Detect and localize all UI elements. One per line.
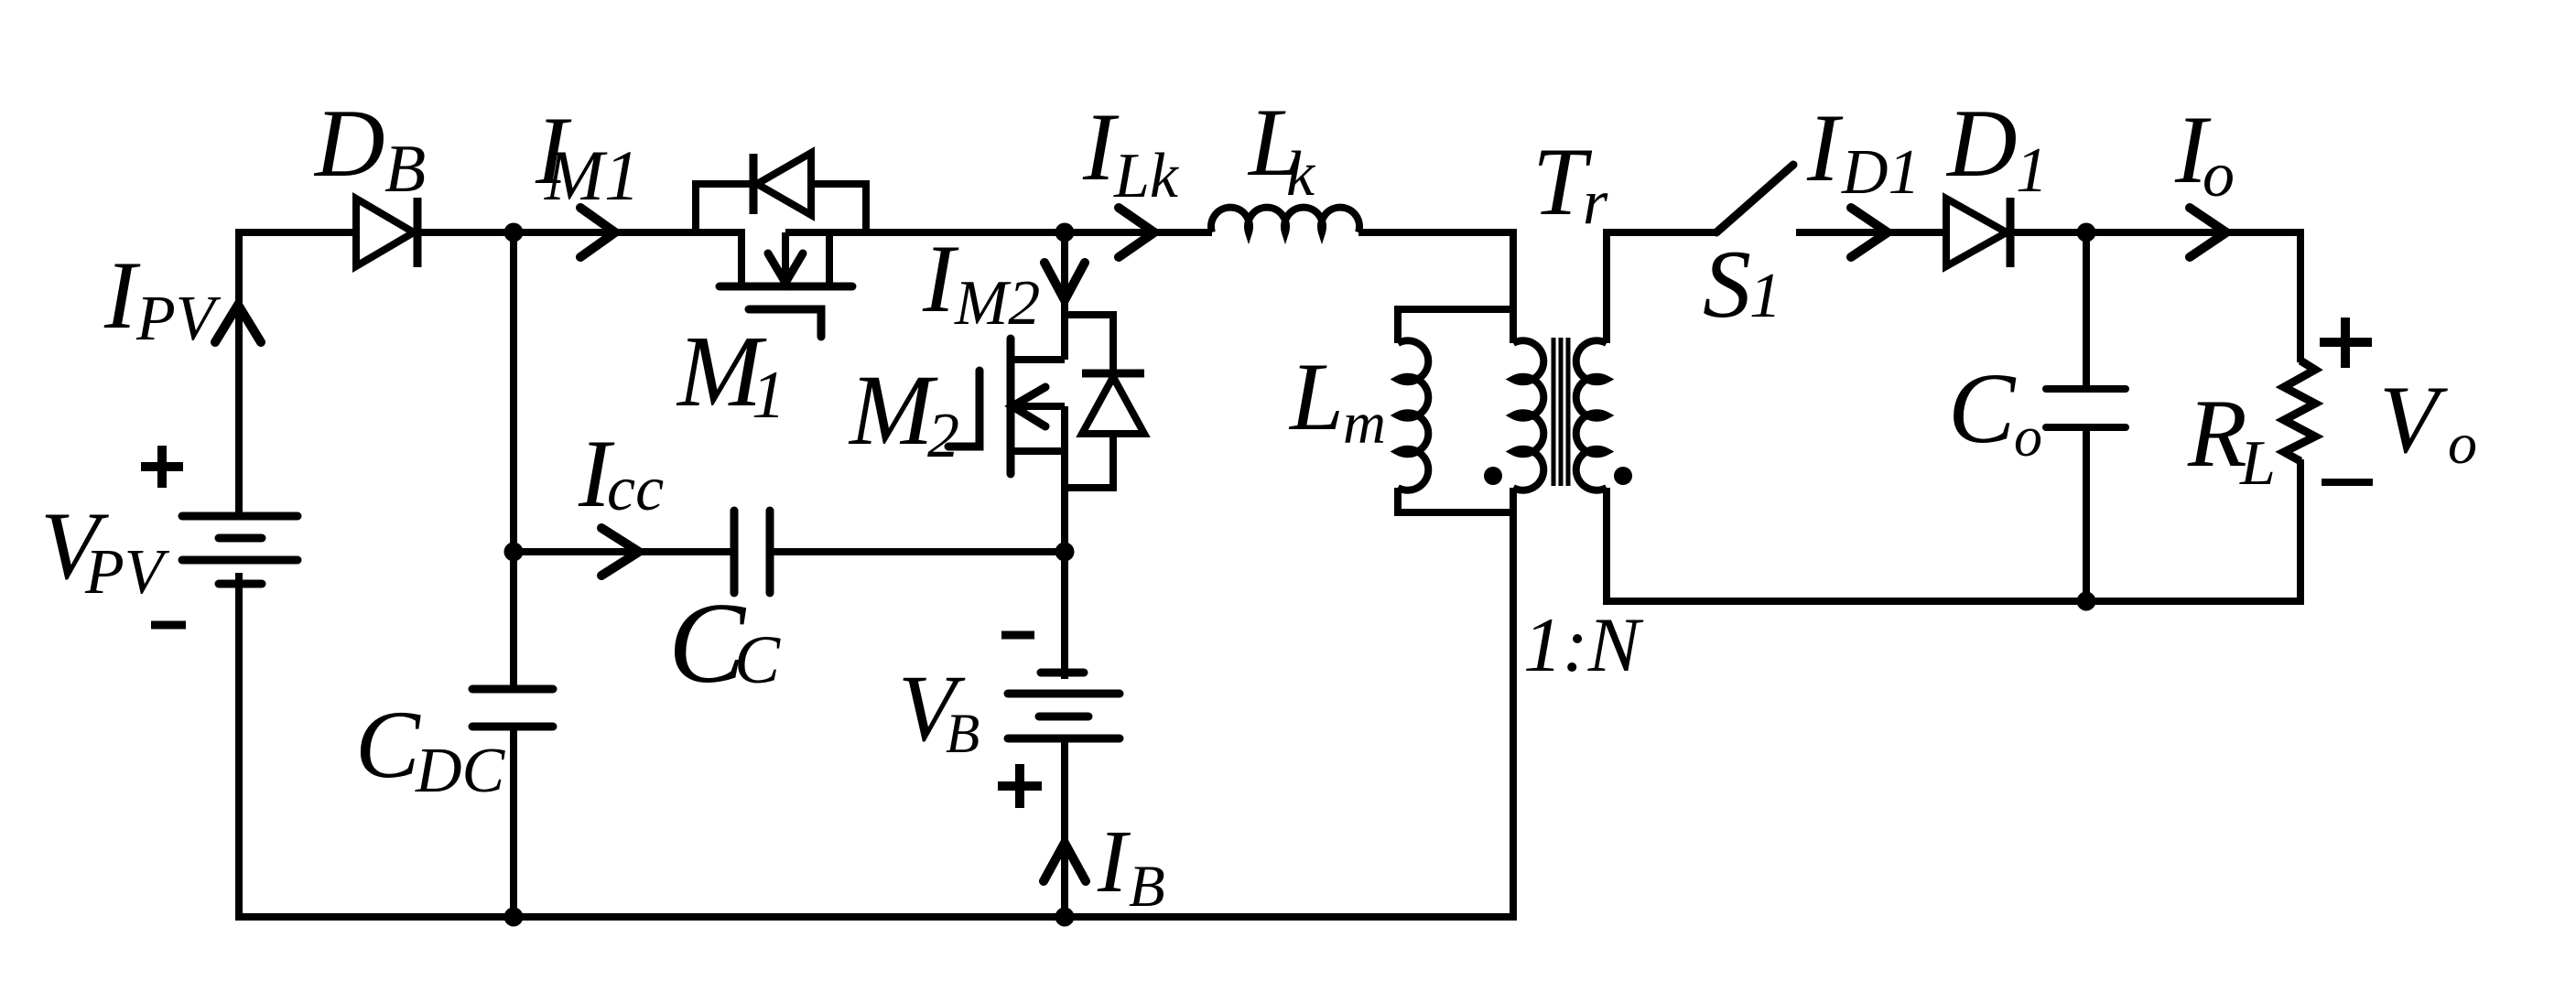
current arrow I_B xyxy=(1044,843,1086,881)
capacitor Co xyxy=(2083,232,2090,385)
node junction dot B xyxy=(1055,223,1075,242)
svg-text:o: o xyxy=(2203,140,2235,210)
svg-text:V: V xyxy=(2379,366,2448,473)
minus sign V_PV xyxy=(151,621,186,630)
svg-text:B: B xyxy=(384,132,426,207)
wire C_DC rail xyxy=(510,232,517,685)
wire node B down to M2 drain xyxy=(1061,232,1068,360)
junction dot bottom C_DC xyxy=(504,908,524,927)
diode D_B xyxy=(356,198,417,267)
svg-text:R: R xyxy=(2187,380,2247,487)
svg-text:I: I xyxy=(1806,94,1844,201)
wire C_C to M2 source xyxy=(770,548,1065,555)
inductor L_k xyxy=(1211,208,1359,232)
wire V_B to bottom rail xyxy=(1061,738,1068,917)
svg-text:o: o xyxy=(2448,411,2477,476)
junction dot output top xyxy=(2077,223,2096,242)
svg-text:D: D xyxy=(313,90,385,197)
svg-text:1:N: 1:N xyxy=(1523,602,1644,688)
capacitor C_C xyxy=(734,511,770,593)
junction dot bottom V_B xyxy=(1055,908,1075,927)
junction dot output bottom xyxy=(2077,592,2096,611)
plus sign V_B xyxy=(998,764,1042,808)
wire D1 to load xyxy=(2007,232,2300,362)
svg-text:r: r xyxy=(1583,167,1608,238)
svg-text:L: L xyxy=(2239,428,2276,499)
current arrow I_M1 xyxy=(580,208,615,257)
transformer core xyxy=(1553,338,1568,486)
svg-text:I: I xyxy=(922,225,959,332)
wire M2 source down to battery V_B xyxy=(1061,552,1068,679)
wire left rail down to bottom rail xyxy=(235,573,243,921)
svg-text:S: S xyxy=(1703,231,1751,338)
polarity dot primary xyxy=(1484,467,1502,485)
plus sign V_o xyxy=(2320,318,2372,368)
polarity dot secondary xyxy=(1614,467,1632,485)
svg-text:1: 1 xyxy=(752,358,785,433)
svg-text:L: L xyxy=(1288,343,1344,450)
svg-text:k: k xyxy=(1286,139,1316,210)
bottom rail xyxy=(235,913,1517,921)
transformer Tr primary winding xyxy=(1513,340,1543,490)
current arrow I_cc xyxy=(601,528,639,576)
wire primary to bottom rail xyxy=(1510,488,1517,921)
diode D1 xyxy=(1946,198,2010,267)
svg-text:C: C xyxy=(1948,352,2017,464)
svg-text:M1: M1 xyxy=(544,135,640,215)
svg-text:D: D xyxy=(1945,90,2018,197)
minus sign V_B xyxy=(1001,631,1034,640)
svg-text:m: m xyxy=(1343,391,1386,457)
current arrow I_PV xyxy=(215,305,261,342)
svg-text:M2: M2 xyxy=(954,268,1040,339)
battery V_B xyxy=(1008,673,1120,738)
svg-text:I: I xyxy=(103,242,141,349)
switch S1 blade xyxy=(1716,165,1793,232)
svg-text:o: o xyxy=(2014,406,2042,469)
svg-text:PV: PV xyxy=(135,284,222,354)
wire L_k to transformer primary xyxy=(1358,232,1513,343)
wire from battery V_PV up and right to diode D_B xyxy=(239,232,356,516)
svg-text:B: B xyxy=(1129,854,1165,920)
bottom wire load loop xyxy=(1607,459,2300,601)
junction dot C_C left xyxy=(504,543,524,562)
wire diode D_B to MOSFET M1 drain xyxy=(414,229,745,236)
svg-text:D1: D1 xyxy=(1841,137,1921,208)
svg-text:B: B xyxy=(946,704,980,765)
svg-text:cc: cc xyxy=(607,454,664,524)
junction dot C_C right xyxy=(1055,543,1075,562)
battery V_PV xyxy=(182,516,298,584)
svg-text:I: I xyxy=(1097,813,1131,910)
svg-text:PV: PV xyxy=(84,537,170,608)
wire to capacitor C_C xyxy=(514,548,734,555)
transistor M1 (MOSFET with body diode) xyxy=(696,153,1065,337)
svg-text:C: C xyxy=(355,691,421,798)
wire node B to inductor L_k xyxy=(1065,229,1212,236)
node junction dot at C_DC rail top xyxy=(504,223,524,242)
svg-text:2: 2 xyxy=(927,401,959,471)
current arrow I_M2 xyxy=(1044,263,1085,300)
magnetizing inductance L_m parallel loop xyxy=(1398,309,1513,512)
wire C_DC to bottom rail xyxy=(510,727,517,917)
transistor M2 (MOSFET with body diode) xyxy=(948,315,1144,555)
transformer secondary winding xyxy=(1576,232,1716,490)
svg-text:1: 1 xyxy=(1749,261,1781,331)
svg-text:C: C xyxy=(734,622,781,698)
svg-text:DC: DC xyxy=(415,736,506,806)
svg-text:1: 1 xyxy=(2016,135,2048,206)
current arrow I_D1 xyxy=(1851,208,1888,257)
current arrow I_o xyxy=(2190,208,2226,257)
plus sign V_PV xyxy=(141,446,183,488)
svg-text:M: M xyxy=(848,354,938,466)
resistor RL xyxy=(2284,361,2315,461)
capacitor C_DC xyxy=(472,689,553,727)
minus sign V_o xyxy=(2322,479,2373,486)
wire switch to diode D1 xyxy=(1796,229,1946,236)
current arrow I_Lk xyxy=(1119,208,1154,257)
svg-text:Lk: Lk xyxy=(1113,141,1180,211)
